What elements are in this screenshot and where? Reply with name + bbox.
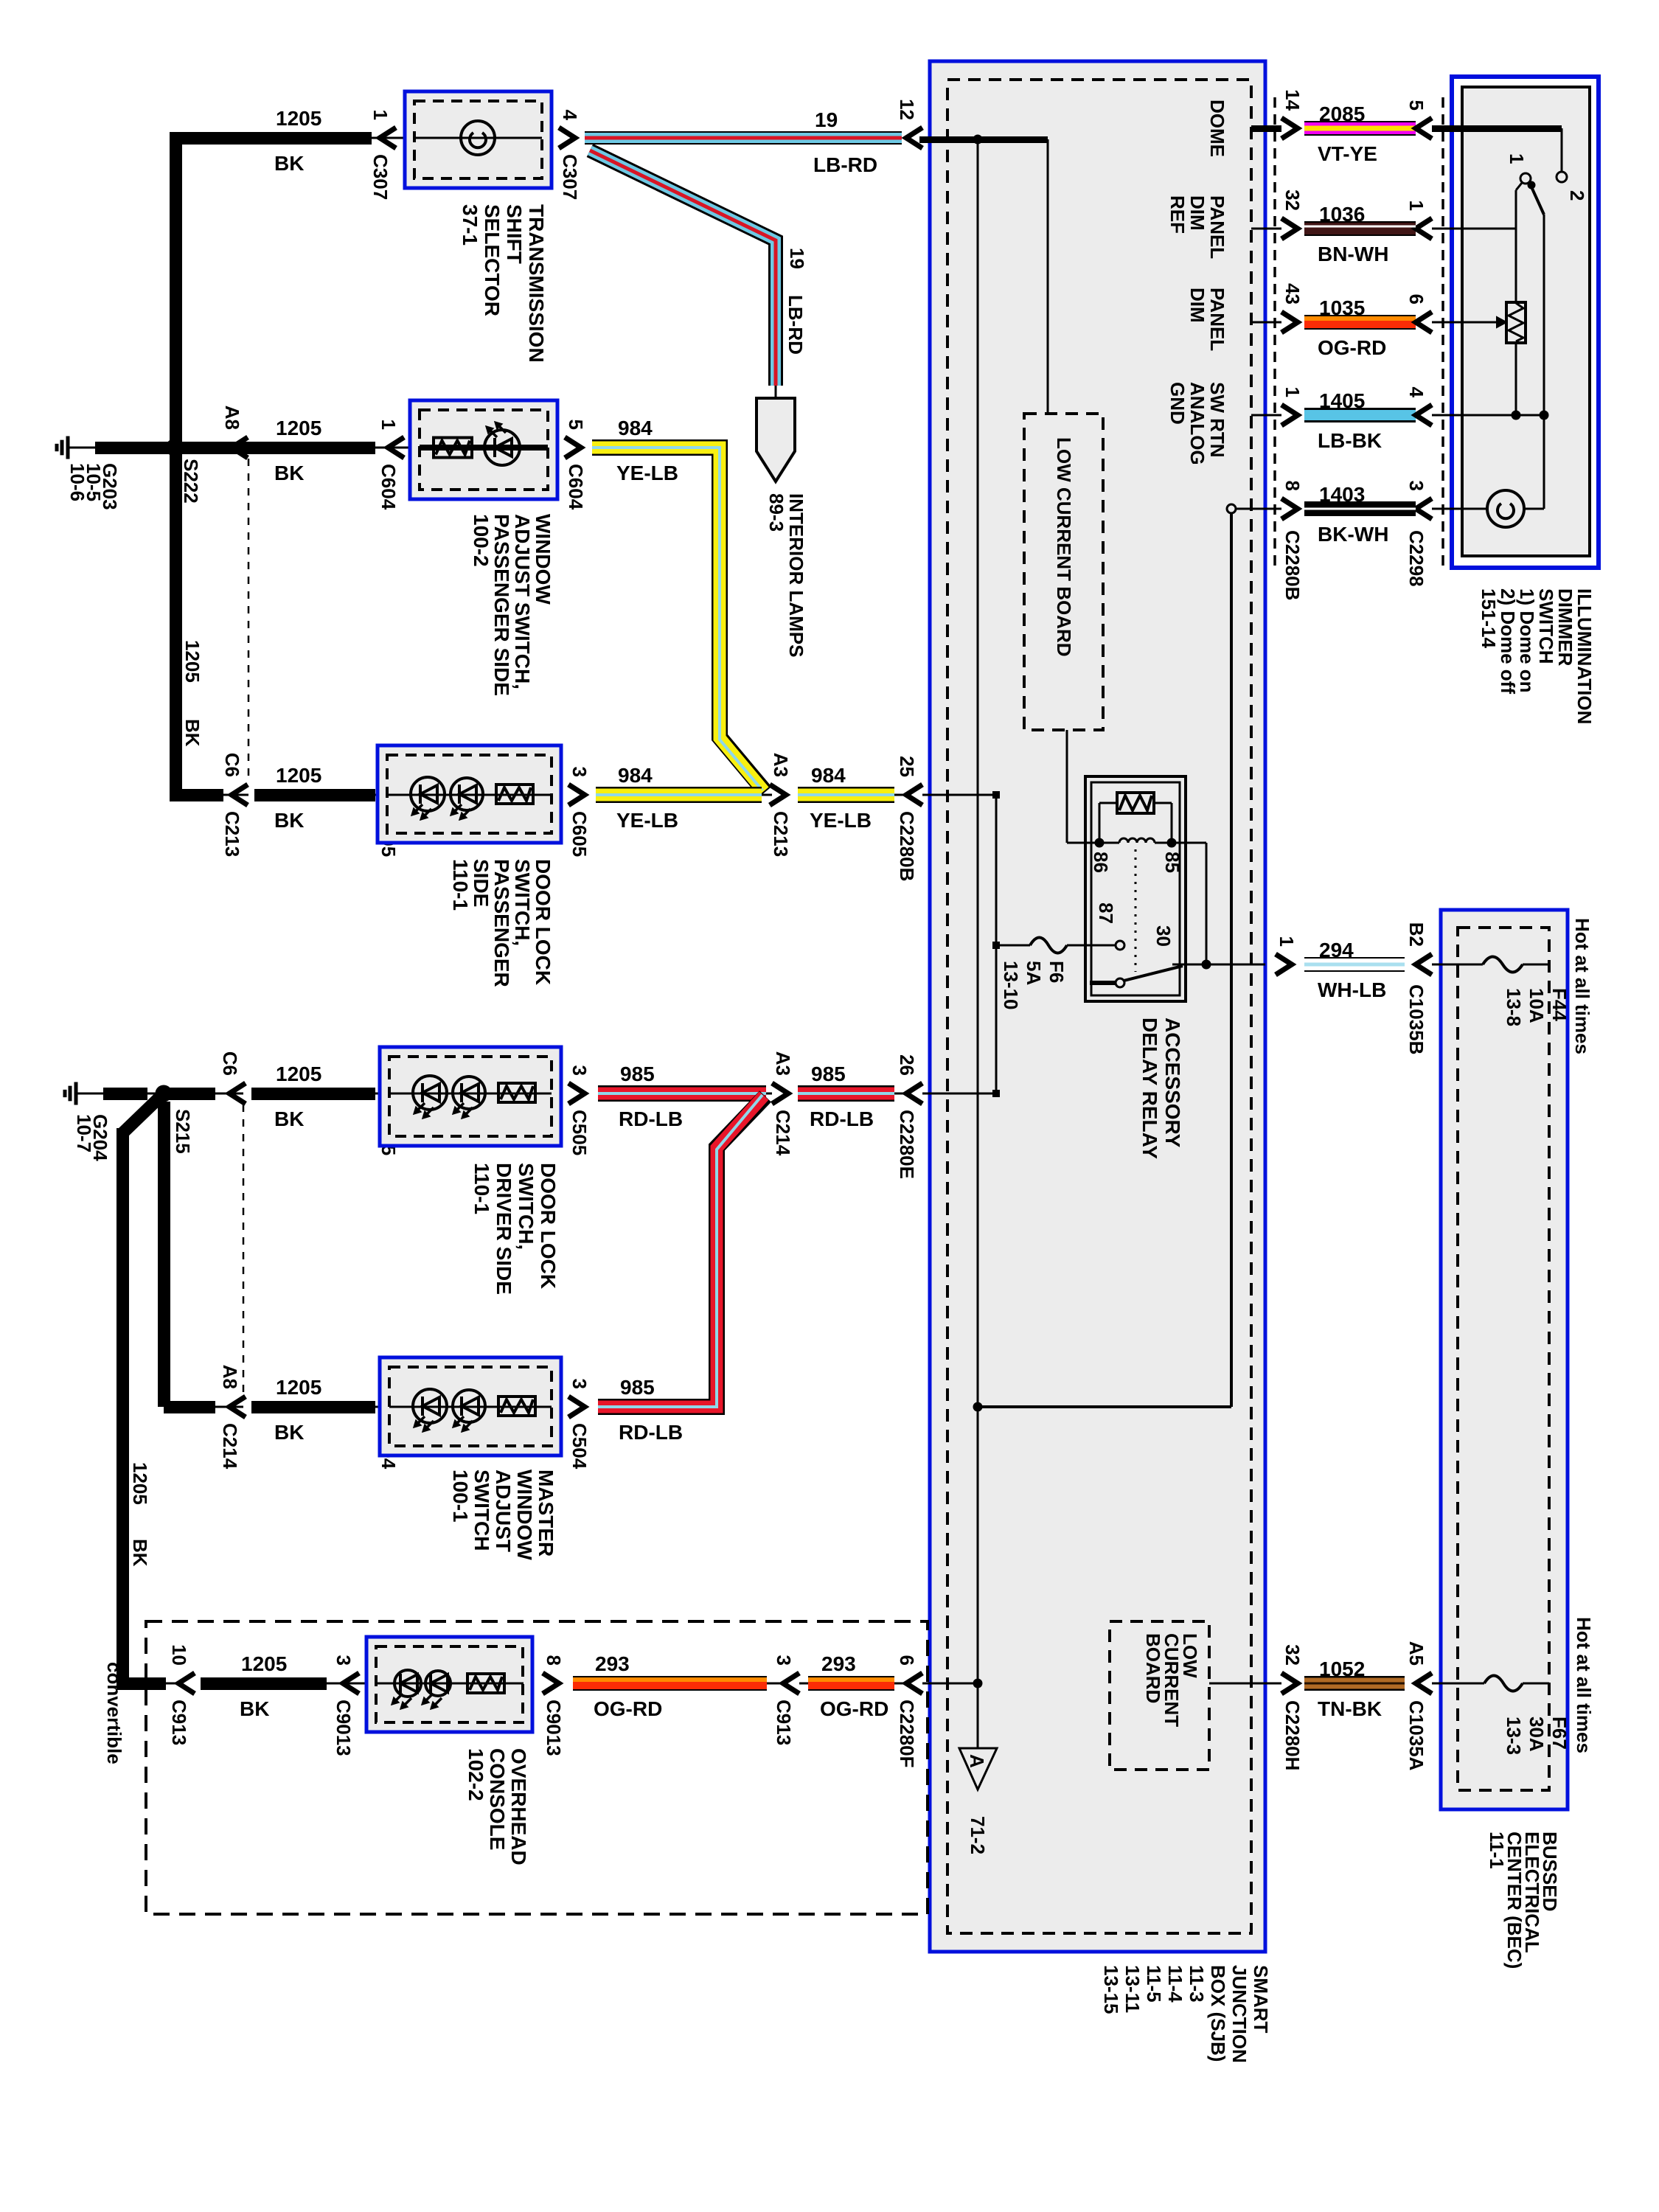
connector C2280B dashed line (1273, 97, 1276, 568)
pin C6 connector C213 (232, 785, 248, 805)
node rheostat/1405 junction (1512, 411, 1520, 420)
svg-text:RD-LB: RD-LB (619, 1107, 683, 1130)
relay label (1138, 1018, 1184, 1159)
wire pin4 row (1432, 414, 1544, 417)
svg-text:1205: 1205 (241, 1652, 287, 1675)
svg-text:1405: 1405 (1319, 389, 1365, 412)
wire 1205 BK vertical (S215 short) (158, 1102, 170, 1407)
svg-text:4: 4 (559, 110, 581, 121)
svg-text:WH-LB: WH-LB (1318, 978, 1386, 1001)
svg-text:100-1: 100-1 (449, 1470, 472, 1523)
wire fuse to relay 30 (1067, 945, 1116, 947)
svg-text:3: 3 (568, 1065, 591, 1076)
svg-text:C6: C6 (219, 1051, 241, 1076)
wire 1205 to G204 (103, 1088, 147, 1100)
label hot at all times (F44) (1571, 918, 1593, 1054)
low current board (top) dashed box (1024, 414, 1103, 730)
wire link vertical x1670 (1230, 512, 1233, 1407)
wire link to pin8 1403 horizontal (978, 1405, 1231, 1408)
wire 2085 VT-YE row (1251, 125, 1281, 132)
svg-text:TRANSMISSION: TRANSMISSION (525, 204, 548, 363)
svg-text:A8: A8 (219, 1365, 241, 1389)
svg-text:A3: A3 (770, 753, 792, 777)
wire SJB pin12 DOME thick run (919, 136, 1048, 143)
svg-text:11-4: 11-4 (1164, 1965, 1186, 2003)
svg-text:ANALOG: ANALOG (1186, 382, 1208, 465)
label DOME (1206, 100, 1228, 157)
svg-text:SWITCH,: SWITCH, (511, 859, 534, 946)
svg-text:C307: C307 (559, 154, 581, 200)
fuse F67 30A (1484, 1676, 1523, 1691)
wire 985 RD-LB from master window (598, 1096, 765, 1407)
svg-text:OG-RD: OG-RD (1318, 336, 1386, 359)
wire through OC (376, 1683, 524, 1685)
svg-text:1: 1 (369, 110, 392, 120)
wire through MWS (389, 1406, 552, 1408)
svg-text:BN-WH: BN-WH (1318, 243, 1388, 265)
svg-text:85: 85 (1161, 852, 1183, 873)
svg-text:5: 5 (1405, 100, 1427, 111)
svg-text:1205: 1205 (181, 640, 204, 683)
pin 3 C505 (568, 1083, 585, 1104)
svg-text:1052: 1052 (1319, 1658, 1365, 1680)
wire 1205 BK row3 (254, 789, 375, 801)
svg-text:1205: 1205 (129, 1462, 151, 1505)
relay box (accessory delay relay) (1085, 776, 1186, 1001)
svg-text:DOME: DOME (1206, 100, 1228, 157)
pin A3 connector C213 (770, 785, 786, 805)
svg-text:C913: C913 (773, 1700, 795, 1745)
svg-text:10: 10 (168, 1644, 190, 1666)
svg-text:YE-LB: YE-LB (616, 462, 678, 484)
wire 294 row inside SJB (1172, 964, 1265, 966)
pin 26 SJB (906, 1083, 922, 1104)
svg-text:1035: 1035 (1319, 296, 1365, 319)
wire relay 85 to pin 1 row (1172, 842, 1206, 844)
DLD label (470, 1163, 560, 1295)
svg-text:BK: BK (274, 1421, 304, 1444)
svg-text:8: 8 (543, 1655, 565, 1666)
lamp in shift selector (461, 121, 495, 155)
svg-text:110-1: 110-1 (470, 1163, 493, 1214)
svg-text:10-7: 10-7 (73, 1114, 95, 1152)
svg-text:3: 3 (1405, 481, 1427, 491)
svg-text:BK-WH: BK-WH (1318, 523, 1388, 546)
svg-text:C307: C307 (369, 154, 392, 200)
LED 2 in DLD (453, 1077, 485, 1109)
svg-text:C2280B: C2280B (896, 811, 918, 881)
wire through DLD (389, 1093, 552, 1095)
wire 293 OG-RD seg2 (808, 1676, 894, 1691)
svg-text:OG-RD: OG-RD (820, 1697, 888, 1720)
svg-text:4: 4 (1405, 387, 1427, 398)
svg-text:C1035A: C1035A (1405, 1700, 1427, 1771)
svg-text:19: 19 (815, 108, 838, 131)
pin A8 connector (232, 437, 248, 458)
svg-text:BK: BK (181, 719, 204, 747)
svg-text:5A: 5A (1023, 961, 1045, 985)
svg-text:A8: A8 (221, 406, 243, 430)
svg-text:3: 3 (568, 1379, 591, 1389)
splice S215 (156, 1085, 172, 1102)
node DOME bus to 293 row (973, 1679, 982, 1688)
ground G203 (68, 447, 95, 449)
svg-text:BK: BK (274, 462, 304, 484)
svg-text:LB-RD: LB-RD (785, 295, 807, 355)
convertible dashed box (146, 1621, 928, 1914)
pin 3 C605 (568, 785, 585, 805)
svg-text:A5: A5 (1405, 1641, 1427, 1666)
wire low current board to relay 86 (1066, 730, 1068, 843)
dimmer lamp (1487, 490, 1524, 527)
pin 25 SJB (906, 785, 922, 805)
svg-text:DIM: DIM (1186, 195, 1208, 231)
overhead console box (366, 1637, 532, 1732)
node fuse bus at fuse row (992, 942, 1000, 949)
svg-text:87: 87 (1095, 902, 1117, 924)
svg-text:1: 1 (1405, 201, 1427, 211)
dimmer rheostat (1506, 302, 1526, 343)
TSS label (459, 204, 548, 363)
svg-text:LB-BK: LB-BK (1318, 429, 1382, 452)
wire 985 RD-LB seg1 (598, 1085, 766, 1102)
svg-text:1205: 1205 (276, 1062, 321, 1085)
wire 1205 BK row1 (170, 132, 372, 145)
svg-text:C6: C6 (221, 753, 243, 777)
resistor in MWS (498, 1397, 535, 1416)
svg-text:A: A (966, 1754, 988, 1768)
svg-text:2: 2 (1566, 190, 1588, 201)
svg-text:11-5: 11-5 (1143, 1965, 1165, 2003)
svg-text:ADJUST SWITCH,: ADJUST SWITCH, (511, 514, 534, 689)
wire vertical to low current board (1047, 139, 1049, 414)
svg-text:PANEL: PANEL (1206, 288, 1228, 351)
label hot at all times (F67) (1573, 1617, 1595, 1753)
pin 8 C9013 (543, 1673, 559, 1694)
node junction 294 row (1202, 960, 1211, 969)
svg-text:151-14: 151-14 (1478, 588, 1500, 648)
svg-text:1205: 1205 (276, 1376, 321, 1399)
pin 1 C505 (388, 1083, 404, 1104)
pin 12 SJB (906, 128, 922, 148)
svg-text:12: 12 (896, 99, 918, 120)
wire 1052 TN-BK row (1209, 1683, 1281, 1685)
svg-text:C2280H: C2280H (1281, 1700, 1304, 1770)
pin 6 SJB (906, 1673, 922, 1694)
pin 3 C9013 (343, 1673, 359, 1694)
transmission shift selector box (405, 91, 552, 188)
label PANEL DIM (1186, 288, 1228, 351)
pin C6 connector (driver) (229, 1083, 246, 1104)
svg-text:CONSOLE: CONSOLE (486, 1748, 509, 1850)
svg-text:C213: C213 (770, 811, 792, 857)
svg-text:13-10: 13-10 (1000, 961, 1022, 1010)
LED 1 in DLD (413, 1076, 447, 1110)
svg-text:BK: BK (274, 809, 304, 832)
wire 1035 OG-RD row (1251, 321, 1281, 324)
node fuse bus top 984 row (992, 791, 1000, 799)
svg-text:3: 3 (568, 767, 591, 777)
svg-text:1205: 1205 (276, 764, 321, 787)
wire rheostat bottom to 1405 row (1515, 343, 1517, 415)
svg-text:1: 1 (1276, 936, 1298, 947)
relay coil (1099, 842, 1119, 844)
svg-text:1205: 1205 (276, 417, 321, 439)
svg-text:OVERHEAD: OVERHEAD (507, 1748, 530, 1865)
LED 2 in DLP (451, 778, 483, 810)
svg-text:PASSENGER SIDE: PASSENGER SIDE (490, 514, 513, 696)
connector dashed link C214 (243, 1105, 245, 1392)
svg-text:985: 985 (620, 1376, 655, 1399)
LED 1 in DLP (411, 777, 445, 811)
wire 1405 LB-BK row (1251, 414, 1281, 417)
switch blade (1529, 182, 1544, 215)
svg-text:C605: C605 (568, 811, 591, 857)
relay blade (1124, 966, 1183, 981)
svg-text:26: 26 (896, 1054, 918, 1076)
svg-text:BK: BK (129, 1539, 151, 1567)
LED 1 in MWS (413, 1389, 447, 1423)
svg-text:B2: B2 (1405, 922, 1427, 947)
svg-text:8: 8 (1281, 481, 1304, 491)
svg-text:294: 294 (1319, 939, 1354, 961)
svg-text:SELECTOR: SELECTOR (481, 204, 504, 316)
pin 5 C604 (565, 437, 581, 458)
svg-text:C2280E: C2280E (896, 1110, 918, 1179)
relay terminal 85 (1167, 838, 1176, 847)
relay 87 bar (1090, 981, 1116, 985)
svg-text:3: 3 (773, 1655, 795, 1666)
wire 19 LB-RD horizontal (585, 131, 902, 145)
wire 1205 BK row5 (251, 1401, 375, 1413)
dimmer internal thick feed (1432, 125, 1562, 132)
svg-text:1403: 1403 (1319, 483, 1365, 506)
svg-text:LOW CURRENT BOARD: LOW CURRENT BOARD (1053, 437, 1075, 657)
wire 1205 BK row4 stub (164, 1088, 215, 1100)
svg-text:BK: BK (274, 152, 304, 175)
wire 985 RD-LB seg2 (798, 1085, 894, 1102)
wire 294 WH-LB row (1276, 954, 1292, 975)
ground G204 (76, 1093, 103, 1095)
svg-text:984: 984 (618, 417, 653, 439)
svg-text:C214: C214 (772, 1110, 794, 1156)
svg-text:F6: F6 (1046, 961, 1068, 983)
pin 1 C504 (388, 1397, 404, 1417)
svg-text:C2280F: C2280F (896, 1700, 918, 1768)
wire through TSS (414, 137, 542, 139)
svg-text:WINDOW: WINDOW (532, 514, 554, 605)
svg-text:RD-LB: RD-LB (619, 1421, 683, 1444)
window adjust switch passenger box (410, 400, 557, 499)
svg-text:BOARD: BOARD (1142, 1633, 1164, 1703)
SJB Smart Junction Box outline (930, 61, 1265, 1952)
wire 1205 BK vertical long (116, 1128, 129, 1689)
pin A8 connector C214 (229, 1397, 246, 1417)
wire 1205 to G203 (95, 442, 158, 454)
svg-text:VT-YE: VT-YE (1318, 142, 1377, 165)
svg-text:5: 5 (565, 420, 587, 430)
svg-text:C2280B: C2280B (1281, 530, 1304, 600)
svg-text:32: 32 (1281, 189, 1304, 211)
svg-text:10A: 10A (1526, 988, 1548, 1023)
wire 1205 BK row2 (215, 442, 375, 454)
svg-text:PASSENGER: PASSENGER (490, 859, 513, 987)
door lock switch driver box (380, 1047, 561, 1146)
splice S222 (166, 439, 182, 456)
wire 984 YE-LB seg1 with corner (592, 448, 765, 792)
svg-text:985: 985 (811, 1062, 846, 1085)
wire 1036 BN-WH row (1251, 228, 1281, 230)
svg-text:MASTER: MASTER (535, 1470, 557, 1557)
svg-text:S222: S222 (180, 459, 202, 504)
svg-text:1: 1 (378, 420, 400, 430)
svg-text:Hot at all times: Hot at all times (1573, 1617, 1595, 1753)
svg-text:C505: C505 (568, 1110, 591, 1155)
svg-text:3: 3 (333, 1655, 355, 1666)
svg-text:A3: A3 (772, 1051, 794, 1076)
svg-text:32: 32 (1281, 1644, 1304, 1666)
svg-text:F44: F44 (1548, 988, 1571, 1021)
svg-text:985: 985 (620, 1062, 655, 1085)
wire through DLP (387, 794, 552, 796)
wire 1205 BK row5 stub (164, 1401, 215, 1413)
svg-text:REF: REF (1166, 195, 1189, 234)
wire DOME bus vertical (977, 139, 979, 1748)
wire 984 YE-LB seg2 (596, 787, 762, 803)
switch contact 1 (1520, 173, 1531, 184)
svg-text:ADJUST: ADJUST (492, 1470, 515, 1552)
node fuse bus bottom 985 row (992, 1090, 1000, 1097)
svg-text:13-3: 13-3 (1503, 1717, 1525, 1755)
interior lamps banner (775, 386, 777, 398)
svg-text:RD-LB: RD-LB (810, 1107, 874, 1130)
svg-text:293: 293 (595, 1652, 630, 1675)
dimmer switch label (1478, 588, 1596, 724)
wire blade vertical (1543, 215, 1545, 415)
MWS label (449, 1470, 557, 1560)
svg-text:SW RTN: SW RTN (1206, 382, 1228, 458)
svg-text:6: 6 (1405, 294, 1427, 305)
node small circle at 1403 corner (1227, 504, 1236, 513)
fuse F6 5A (1030, 938, 1067, 953)
svg-text:19: 19 (786, 248, 808, 269)
wire to pin8 (1236, 508, 1281, 510)
svg-text:F67: F67 (1548, 1717, 1571, 1750)
wire 1205 BK vertical (S222) (170, 132, 182, 801)
svg-text:100-2: 100-2 (470, 514, 493, 567)
pin 1 C604 (388, 437, 404, 458)
svg-text:SHIFT: SHIFT (503, 204, 526, 264)
svg-text:43: 43 (1281, 283, 1304, 305)
svg-text:984: 984 (811, 764, 846, 787)
pin 4 C307 (559, 128, 575, 148)
svg-text:PANEL: PANEL (1206, 195, 1228, 259)
wire fuse bus vertical (995, 795, 998, 1093)
svg-text:SIDE: SIDE (470, 859, 493, 907)
svg-text:SWITCH,: SWITCH, (515, 1163, 538, 1250)
connector C2280B label (1281, 530, 1304, 600)
label PANEL DIM REF (1166, 195, 1228, 259)
svg-text:LB-RD: LB-RD (813, 153, 877, 176)
LED 2 in MWS (453, 1390, 485, 1422)
wire 19 LB-RD diagonal (590, 150, 776, 386)
svg-text:71-2: 71-2 (967, 1816, 989, 1854)
node DOME bus to 1403 link (973, 1402, 982, 1411)
label SW RTN ANALOG GND (1166, 382, 1228, 465)
wire through WAS (420, 445, 548, 451)
svg-text:86: 86 (1090, 852, 1112, 873)
svg-text:13-15: 13-15 (1100, 1965, 1122, 2014)
LED in WAS (484, 430, 520, 465)
relay economizer resistor (1117, 793, 1154, 813)
relay terminal 86 (1095, 838, 1104, 847)
illumination dimmer switch box (1452, 77, 1599, 568)
bussed electrical center box (1441, 910, 1568, 1809)
svg-text:YE-LB: YE-LB (810, 809, 872, 832)
svg-text:25: 25 (896, 756, 918, 777)
svg-text:C9013: C9013 (333, 1700, 355, 1756)
wire 1205 BK row3 stub (170, 789, 223, 801)
svg-text:INTERIOR LAMPS: INTERIOR LAMPS (785, 493, 807, 657)
LED 1 in OC (394, 1670, 421, 1697)
low current board (bottom) dashed box (1110, 1621, 1209, 1770)
svg-text:1: 1 (1281, 387, 1304, 397)
pin A3 connector C214 (772, 1083, 788, 1104)
wire S215 diagonal (122, 1093, 164, 1133)
wire S222 stub (158, 442, 174, 454)
svg-text:C9013: C9013 (543, 1700, 565, 1756)
wire 984 YE-LB seg3 (798, 787, 894, 803)
svg-text:293: 293 (821, 1652, 856, 1675)
svg-text:1: 1 (1506, 153, 1528, 164)
wire pin1 to contact1 and rheostat (1432, 228, 1516, 230)
svg-text:89-3: 89-3 (765, 493, 787, 532)
svg-text:984: 984 (618, 764, 653, 787)
pin 10 connector C913 (178, 1673, 195, 1694)
connector C2298 label (1405, 530, 1427, 587)
svg-text:S215: S215 (172, 1109, 194, 1154)
svg-text:C2298: C2298 (1405, 530, 1427, 587)
resistor in DLD (498, 1083, 535, 1102)
svg-text:DOOR LOCK: DOOR LOCK (537, 1163, 560, 1289)
svg-text:14: 14 (1281, 89, 1304, 111)
svg-text:ACCESSORY: ACCESSORY (1161, 1018, 1184, 1148)
svg-text:BOX (SJB): BOX (SJB) (1207, 1965, 1229, 2062)
svg-text:SMART: SMART (1250, 1965, 1272, 2034)
pin 3 C504 (568, 1397, 585, 1417)
svg-text:11-1: 11-1 (1486, 1832, 1508, 1869)
node junction pin12/DOME bus (973, 135, 982, 144)
connector dashed link C213 top (248, 459, 250, 783)
svg-text:110-1: 110-1 (449, 859, 472, 911)
svg-text:C604: C604 (565, 464, 587, 510)
wire 1205 BK row6 (201, 1677, 327, 1690)
svg-text:C504: C504 (568, 1423, 591, 1470)
svg-text:1205: 1205 (276, 107, 321, 130)
svg-text:11-3: 11-3 (1186, 1965, 1208, 2003)
svg-text:37-1: 37-1 (459, 204, 481, 246)
wire fuse feed (996, 945, 1030, 947)
LED 2 in OC (425, 1671, 451, 1696)
wire 1205 BK row4 (251, 1088, 375, 1100)
connector C2298 dashed line (1441, 97, 1444, 568)
svg-text:C214: C214 (219, 1423, 241, 1470)
svg-text:YE-LB: YE-LB (616, 809, 678, 832)
WAS label (470, 514, 554, 696)
svg-text:6: 6 (896, 1655, 918, 1666)
pin 3 connector C913 (783, 1673, 799, 1694)
svg-text:30: 30 (1152, 925, 1175, 947)
